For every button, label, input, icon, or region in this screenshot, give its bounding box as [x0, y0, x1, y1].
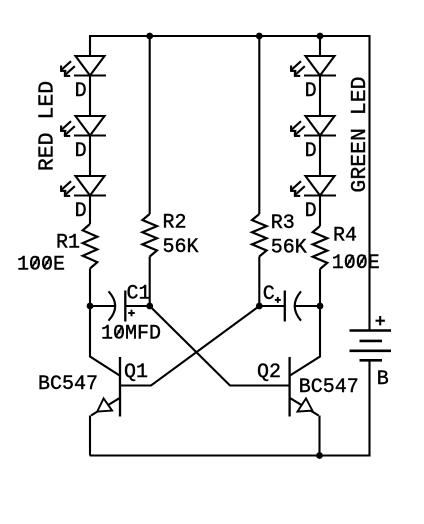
wire C1-node R2	[125, 305, 149, 307]
svg-text:D: D	[75, 200, 87, 223]
svg-text:Q2: Q2	[257, 361, 281, 384]
battery B plate 1 long	[350, 329, 392, 332]
label B (battery)	[377, 368, 389, 391]
wire C1 node to Q2 base (diagonal)	[150, 306, 290, 386]
junction dot C1 left node	[87, 303, 94, 310]
battery B plate 2 short	[360, 340, 383, 343]
wire right battery column top	[368, 35, 370, 331]
polarity + of C2	[275, 297, 281, 303]
wire top-R2	[149, 36, 151, 214]
svg-text:D: D	[305, 200, 317, 223]
label R4	[333, 225, 357, 248]
polarity + of C1	[128, 310, 135, 317]
label Q1	[124, 361, 148, 384]
LED D6 green	[290, 176, 336, 196]
label R3	[271, 212, 295, 235]
wire top-LED4	[319, 36, 321, 56]
label BC547 (Q1)	[38, 373, 98, 396]
battery B plate 4 short	[360, 359, 383, 362]
svg-text:D: D	[75, 80, 87, 103]
wire LED5-LED6 (right)	[319, 136, 321, 177]
svg-text:100E: 100E	[17, 254, 65, 277]
svg-text:R3: R3	[271, 212, 295, 235]
wire Q1 emitter to ground rail	[89, 416, 91, 456]
label D (red LED 2)	[75, 140, 87, 163]
wire node-C1 left plate	[90, 305, 115, 307]
svg-text:BC547: BC547	[38, 373, 98, 396]
svg-text:100E: 100E	[332, 252, 380, 275]
junction dot top green LEDs	[317, 33, 324, 40]
svg-text:C1: C1	[127, 283, 151, 306]
svg-text:56K: 56K	[163, 236, 199, 259]
wire R3-C2 node	[258, 257, 260, 307]
label C (C2)	[263, 283, 275, 306]
resistor R4	[313, 226, 328, 269]
svg-text:56K: 56K	[271, 237, 307, 260]
svg-text:B: B	[377, 368, 389, 391]
label D (green LED 3)	[305, 200, 317, 223]
transistor Q1 base bar	[119, 357, 121, 417]
wire C2-node green	[295, 305, 320, 307]
junction dot C1 right node	[146, 303, 153, 310]
capacitor C2 curved plate	[295, 291, 301, 320]
label D (red LED 1)	[75, 80, 87, 103]
wire R2-C1 node	[149, 257, 151, 307]
wire collector drop Q2	[290, 306, 320, 376]
label 56K (R2 value)	[163, 236, 199, 259]
label R1	[56, 232, 80, 255]
label C1	[127, 283, 151, 306]
wire left column top	[89, 35, 91, 56]
resistor R2	[142, 214, 157, 257]
LED D4 green	[290, 56, 336, 76]
label D (green LED 1)	[305, 80, 317, 103]
LED D3 red	[60, 176, 106, 196]
svg-text:R1: R1	[56, 232, 80, 255]
svg-text:BC547: BC547	[299, 376, 359, 399]
wire top supply rail	[90, 35, 370, 37]
label 100E (R1 value)	[17, 254, 65, 277]
wire C2 node to Q1 base (diagonal)	[120, 306, 259, 386]
svg-text:GREEN LED: GREEN LED	[348, 76, 372, 192]
label BC547 (Q2)	[299, 376, 359, 399]
label GREEN LED	[348, 76, 372, 192]
label R2	[163, 211, 187, 234]
label 10MFD (C1 value)	[101, 323, 161, 346]
svg-text:D: D	[75, 140, 87, 163]
wire top-R3	[258, 36, 260, 214]
LED D1 red	[60, 56, 106, 76]
LED D5 green	[290, 116, 336, 136]
wire R1-node (left)	[89, 269, 91, 307]
junction dot top R2	[146, 33, 153, 40]
label D (red LED 3)	[75, 200, 87, 223]
label 56K (R3 value)	[271, 237, 307, 260]
junction dot C2 right node	[317, 303, 324, 310]
transistor Q2 base bar	[288, 357, 290, 417]
wire bottom ground rail	[90, 454, 370, 456]
capacitor C2 straight plate	[284, 291, 286, 322]
wire R4-node (right)	[319, 269, 321, 306]
wire LED3-R1 (left)	[89, 196, 91, 225]
junction dot top R3	[256, 33, 263, 40]
wire LED2-LED3 (left)	[89, 136, 91, 177]
svg-text:R4: R4	[333, 225, 357, 248]
transistor Q2 emitter	[290, 398, 319, 416]
transistor Q1 emitter	[91, 398, 120, 416]
wire node-C2 straight plate	[259, 305, 285, 307]
svg-text:D: D	[305, 140, 317, 163]
battery B plate 3 long	[350, 349, 392, 352]
label Q2	[257, 361, 281, 384]
svg-text:10MFD: 10MFD	[101, 323, 161, 346]
resistor R1	[83, 224, 98, 269]
wire LED6-R4	[319, 196, 321, 227]
label 100E (R4 value)	[332, 252, 380, 275]
wire LED4-LED5 (right)	[319, 76, 321, 117]
svg-text:RED LED: RED LED	[36, 81, 60, 171]
svg-text:C: C	[263, 283, 275, 306]
junction dot C2 left node	[256, 303, 263, 310]
wire LED1-LED2 (left)	[89, 76, 91, 117]
resistor R3	[252, 214, 267, 257]
wire collector drop Q1	[90, 306, 120, 376]
LED D2 red	[60, 116, 106, 136]
polarity + of battery	[376, 316, 385, 325]
wire Q2 emitter to ground rail	[318, 416, 320, 456]
junction dot ground rail	[316, 452, 323, 459]
capacitor C1 curved plate	[109, 291, 116, 320]
wire battery minus to ground rail	[368, 360, 370, 456]
label RED LED	[36, 81, 60, 171]
label D (green LED 2)	[305, 140, 317, 163]
svg-text:Q1: Q1	[124, 361, 148, 384]
capacitor C1 straight plate	[124, 291, 126, 322]
svg-text:R2: R2	[163, 211, 187, 234]
svg-text:D: D	[305, 80, 317, 103]
